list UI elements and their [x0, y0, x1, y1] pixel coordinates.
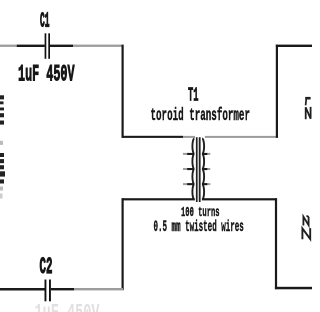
load Z2 label fragment (cut at right edge) — [302, 216, 310, 239]
svg-text:0.5 mm twisted wires: 0.5 mm twisted wires — [154, 218, 244, 236]
svg-text:C1: C1 — [40, 9, 50, 33]
wire bottom-left black segment from edge to C2 — [0, 288, 45, 291]
svg-text:toroid transformer: toroid transformer — [151, 106, 250, 126]
wire vertical right-bottom — [275, 198, 277, 289]
transformer T1 core gray middle — [197, 138, 199, 202]
wire bottom-left gray segment — [74, 288, 124, 290]
wire secondary bottom horizontal — [202, 198, 277, 200]
svg-text:1uF 450V: 1uF 450V — [18, 63, 75, 88]
primary winding tap stub 2 — [183, 168, 194, 170]
secondary winding tap stub 1 — [202, 153, 210, 155]
wire primary top horizontal black — [122, 136, 184, 138]
svg-text:C2: C2 — [40, 255, 53, 281]
capacitor C2 — [45, 280, 51, 302]
transformer T1 core line left — [196, 137, 198, 202]
wire top-right horizontal to edge — [276, 45, 312, 47]
primary winding tap stub 1 — [183, 153, 194, 155]
wire gray segment to corner — [73, 45, 122, 47]
primary winding tap stub 3 — [183, 183, 194, 185]
wire vertical right-top — [276, 45, 278, 138]
transformer T1 core line right — [199, 137, 201, 202]
wire bottom-left black segment right of C2 — [51, 288, 74, 290]
left edge rotated source label fragments — [0, 95, 5, 198]
capacitor C1 — [45, 33, 50, 59]
wire top-left black segment to C1 — [17, 45, 45, 47]
svg-text:T1: T1 — [188, 86, 199, 107]
wire primary top horizontal gray tail — [183, 136, 195, 138]
wire bottom-right horizontal to edge — [275, 287, 312, 290]
wire black segment C1 to mid — [50, 45, 73, 47]
wire top-left gray segment from left edge — [0, 45, 17, 47]
transformer T1 secondary winding arcs — [202, 139, 204, 200]
secondary winding tap stub 2 — [202, 168, 210, 170]
secondary winding tap stub 3 — [202, 183, 210, 185]
wire primary bottom horizontal — [122, 198, 195, 200]
wire secondary top horizontal gray — [205, 136, 277, 138]
wire vertical left-bottom — [122, 198, 124, 290]
load Z1 label fragment (cut at right edge) — [305, 98, 310, 119]
transformer T1 primary winding arcs — [192, 139, 194, 200]
wire vertical left-top corner down — [122, 45, 124, 138]
svg-text:1uF 450V: 1uF 450V — [35, 301, 100, 312]
